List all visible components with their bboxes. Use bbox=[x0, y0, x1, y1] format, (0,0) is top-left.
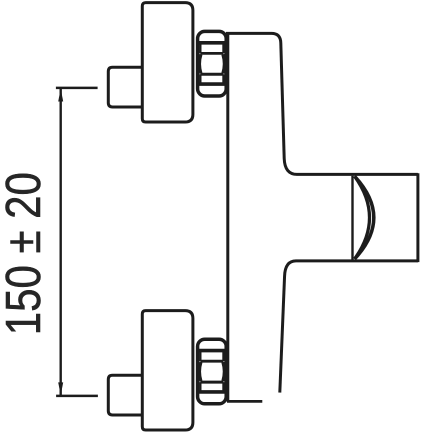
handle outer curve arc bbox=[355, 177, 374, 259]
top flange bbox=[142, 3, 193, 122]
mixer body bottom outline bbox=[280, 261, 418, 393]
bottom hex nut bbox=[198, 339, 227, 404]
dimension extension line bottom bbox=[56, 395, 98, 398]
mixer body top outline bbox=[226, 33, 418, 174]
mixer body mounting face line bbox=[226, 32, 229, 401]
dimension arrow top bbox=[58, 89, 63, 102]
shower outlet line bbox=[227, 400, 262, 403]
dimension extension line top bbox=[56, 87, 98, 90]
bottom flange bbox=[142, 311, 193, 430]
handle inner curve arc bbox=[355, 176, 370, 259]
dimension arrow bottom bbox=[58, 382, 63, 395]
dimension line bbox=[60, 89, 62, 396]
top inlet pipe connector bbox=[108, 67, 142, 107]
handle flat face vertical line bbox=[351, 176, 353, 260]
svg-text:150 ± 20: 150 ± 20 bbox=[0, 172, 51, 335]
bottom inlet pipe connector bbox=[108, 375, 142, 415]
handle end cap edge bbox=[416, 173, 419, 262]
top hex nut bbox=[198, 31, 227, 96]
